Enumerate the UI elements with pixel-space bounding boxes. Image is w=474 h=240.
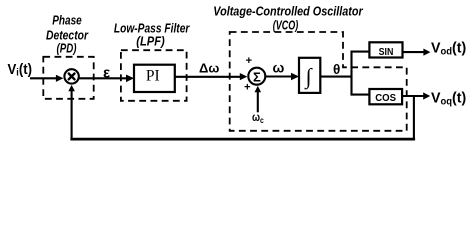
svg-text:(VCO): (VCO) <box>273 17 299 32</box>
svg-text:θ: θ <box>333 62 340 77</box>
wire: branch to SIN <box>351 51 370 53</box>
svg-text:(LPF): (LPF) <box>136 33 165 48</box>
svg-text:COS: COS <box>375 92 396 104</box>
summer sigma <box>248 68 265 85</box>
svg-text:+: + <box>244 81 250 93</box>
wire: summer to integrator <box>266 75 293 77</box>
dashed box PD <box>43 57 93 99</box>
wire: feedback bottom run <box>70 138 415 141</box>
svg-text:Σ: Σ <box>253 70 261 85</box>
wire: multiplier to PI box <box>79 77 128 79</box>
label: Low-Pass Filter (LPF) title <box>114 20 190 48</box>
wire: branch to COS <box>351 94 370 96</box>
svg-text:ω: ω <box>273 59 285 75</box>
wire: omega_c up into summer <box>257 90 259 112</box>
svg-text:Voltage-Controlled Oscillator: Voltage-Controlled Oscillator <box>213 3 363 18</box>
svg-text:Vi(t): Vi(t) <box>8 62 33 79</box>
wire: Vi input to multiplier <box>30 77 58 79</box>
block integrator <box>299 58 320 93</box>
wire: integrator to branch <box>320 76 352 78</box>
svg-text:PI: PI <box>146 68 160 85</box>
svg-text:SIN: SIN <box>379 46 394 58</box>
dashed box LPF <box>121 50 187 101</box>
wire: branch vertical <box>350 51 352 96</box>
block COS <box>369 89 402 104</box>
wire: feedback up into multiplier <box>71 90 73 140</box>
block PI (loop filter) <box>134 65 175 92</box>
svg-text:Phase: Phase <box>52 12 82 27</box>
label: Voltage-Controlled Oscillator (VCO) title <box>213 3 363 32</box>
dashed outline VCO (step polygon: COS inside, SIN outside) <box>230 32 407 131</box>
label: Phase Detector (PD) title <box>46 12 89 55</box>
multiplier X (phase detector mixer) <box>64 69 78 83</box>
wire: PI to summer <box>175 76 243 78</box>
wire: feedback tap down from COS output <box>413 96 415 139</box>
svg-text:Δω: Δω <box>199 60 219 75</box>
svg-text:ε: ε <box>103 64 110 81</box>
svg-text:(PD): (PD) <box>57 41 77 56</box>
wire: SIN output arrow <box>403 51 426 53</box>
block SIN <box>369 42 402 58</box>
svg-text:+: + <box>246 55 252 67</box>
wire: COS output arrow <box>402 95 423 97</box>
